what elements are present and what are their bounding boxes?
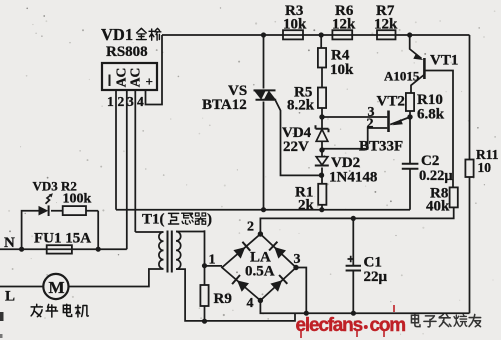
node 2 <box>247 220 263 237</box>
svg-text:0.5A: 0.5A <box>245 264 275 280</box>
svg-text:VT2: VT2 <box>377 94 405 110</box>
bridge rectifier VD1 body <box>102 63 157 90</box>
capacitor C2 <box>402 117 419 210</box>
svg-text:L: L <box>5 289 15 305</box>
wire UJT b2 (pin3) <box>322 105 387 120</box>
svg-text:C2: C2 <box>421 153 439 169</box>
wire DC+ rail node2 to R8 <box>260 207 453 233</box>
label FU1 15A <box>34 231 91 247</box>
label C1 22u <box>364 255 388 286</box>
svg-text:BT33F: BT33F <box>359 139 403 155</box>
svg-text:100k: 100k <box>63 192 92 207</box>
label VT1 <box>430 53 458 69</box>
motor M <box>43 274 68 299</box>
wire VD1 pin3 down to T1 primary top <box>134 90 136 232</box>
transformer T1 core <box>168 231 172 273</box>
wire VD1 pin1 to control ground rail <box>115 90 117 210</box>
label R5 8.2k <box>287 85 315 114</box>
node R5/VD4/pin3 <box>319 114 324 119</box>
svg-text:R9: R9 <box>214 291 232 307</box>
label R7 12k <box>374 3 398 33</box>
resistor R8 <box>450 187 458 207</box>
wire triac gate to VD2/R1 node <box>276 101 322 176</box>
wire secondary top down to node 1 <box>204 230 206 285</box>
wire VS branch from top rail <box>263 35 265 210</box>
label N <box>4 235 15 251</box>
wire control ground rail <box>116 209 410 211</box>
label R4 10k <box>330 48 354 79</box>
label VS BTA12 <box>202 83 247 113</box>
node top rail / VT1 emitter <box>407 32 412 37</box>
transistor VT1 A1015 <box>410 35 453 187</box>
watermark chinese gray <box>411 314 480 327</box>
svg-text:3: 3 <box>127 94 134 109</box>
wire bottom rail <box>260 301 469 314</box>
label 100k <box>63 192 92 207</box>
wire L line left <box>0 286 43 288</box>
resistor R2 <box>63 206 86 215</box>
bridge diode bottom-left <box>232 275 249 292</box>
resistor R9 <box>200 285 208 322</box>
VD1 part number RS808 <box>106 44 148 60</box>
svg-text:1N4148: 1N4148 <box>329 170 377 186</box>
svg-text:4: 4 <box>247 296 254 311</box>
svg-text:12k: 12k <box>332 17 356 33</box>
label R1 2k <box>295 185 315 214</box>
svg-text:10k: 10k <box>330 62 354 78</box>
wire VD3/R2 parallel branch <box>22 211 99 250</box>
node rail/R1 <box>319 207 324 212</box>
bridge rectifier LA body <box>222 234 296 301</box>
wire main column R4..R1 <box>320 35 323 210</box>
resistor R5 <box>318 88 326 109</box>
label R3 10k <box>283 3 307 33</box>
label R9 <box>214 291 232 307</box>
node top rail / VS branch <box>261 32 266 37</box>
svg-text:T1(: T1( <box>142 212 165 228</box>
VD1 pin numbers 1 2 3 4 <box>107 94 144 109</box>
svg-text:VT1: VT1 <box>430 53 458 69</box>
node rail/VS <box>261 207 266 212</box>
wire node1 to bridge left <box>205 265 223 267</box>
node C1 bottom <box>351 311 356 316</box>
bridge rectifier VD1 label <box>101 25 161 44</box>
svg-text:AC: AC <box>114 68 129 88</box>
transformer T1 secondary winding <box>176 232 205 270</box>
node node3 drop <box>304 311 309 316</box>
label VT2 <box>377 94 405 110</box>
svg-text:40k: 40k <box>426 199 450 215</box>
svg-text:2: 2 <box>247 220 254 235</box>
diode VD2 <box>315 157 329 166</box>
node N rail left <box>19 247 24 252</box>
label R8 40k <box>426 186 450 215</box>
node VD4/VD2/pin2 <box>319 147 324 152</box>
wire top supply rail <box>162 34 470 36</box>
resistor R7 <box>377 30 396 39</box>
label BT33F <box>359 139 403 155</box>
svg-text:8.2k: 8.2k <box>287 98 315 114</box>
label L <box>5 289 15 305</box>
label motor chinese <box>31 304 88 317</box>
label R10 6.8k <box>417 92 445 123</box>
svg-text:4: 4 <box>137 94 144 109</box>
surge arrow above VD3 <box>46 193 53 204</box>
transformer T1 label <box>142 212 212 228</box>
wire VD1 pin4 (+) up to top rail <box>146 35 163 105</box>
svg-text:22V: 22V <box>283 139 309 155</box>
svg-text:2k: 2k <box>298 198 315 214</box>
svg-text:M: M <box>49 278 65 297</box>
svg-text:6.8k: 6.8k <box>417 107 445 123</box>
label VD2 1N4148 <box>329 155 377 186</box>
wire T1 secondary bottom to lower rail <box>176 269 295 321</box>
svg-text:12k: 12k <box>374 17 398 33</box>
svg-text:A1015: A1015 <box>384 69 420 84</box>
label A1015 <box>384 69 420 84</box>
label LA 0.5A <box>245 250 275 280</box>
svg-text:+: + <box>146 74 153 89</box>
resistor R6 <box>332 30 352 39</box>
wire N rail <box>0 248 127 250</box>
node 3 <box>293 252 300 270</box>
node top rail / R4 branch <box>319 32 324 37</box>
node 1 <box>202 253 216 269</box>
svg-text:): ) <box>207 212 212 228</box>
svg-text:com: com <box>370 315 406 336</box>
wire node3 to bottom rail <box>296 268 306 314</box>
resistor R4 <box>318 48 326 68</box>
resistor R11 <box>465 35 473 313</box>
fuse FU1 <box>47 245 72 253</box>
node gate/VD2/R1 <box>319 173 324 178</box>
svg-text:RS808: RS808 <box>106 44 148 60</box>
transistor VT2 BT33F <box>389 111 411 133</box>
edge mark bottom left <box>0 312 4 338</box>
svg-text:2: 2 <box>367 117 374 132</box>
label VD4 22V <box>282 125 312 155</box>
wire motor to T1 primary <box>69 269 164 287</box>
node N rail right <box>96 247 101 252</box>
node 4 <box>247 296 264 311</box>
diode VD3 <box>39 205 49 216</box>
resistor R1 <box>318 184 326 205</box>
resistor R10 <box>406 93 414 117</box>
svg-text:1: 1 <box>107 94 114 109</box>
watermark elecfans.com <box>296 305 406 338</box>
label R11 10 <box>476 147 499 175</box>
wire VD1 pin2 down to N rail <box>126 90 128 249</box>
resistor R3 <box>283 30 303 39</box>
svg-text:22μ: 22μ <box>364 269 388 285</box>
svg-text:FU1 15A: FU1 15A <box>34 231 91 247</box>
bridge diode top-right <box>269 242 286 259</box>
svg-text:0.22μ: 0.22μ <box>419 168 453 184</box>
node R10/VT2 emitter/C2 <box>407 114 412 119</box>
bridge diode bottom-right <box>270 275 287 292</box>
svg-text:3: 3 <box>294 252 301 267</box>
transformer T1 primary winding <box>135 232 163 269</box>
svg-text:elecfans: elecfans <box>296 315 363 336</box>
zener diode VD4 <box>316 125 329 141</box>
bridge diode top-left <box>233 242 250 259</box>
svg-text:AC: AC <box>128 68 143 88</box>
svg-text:VD3: VD3 <box>33 179 59 194</box>
node R9 bottom <box>202 319 207 324</box>
svg-text:10: 10 <box>478 160 492 175</box>
label VD3 R2 <box>33 179 77 194</box>
wire UJT b1 (pin2) <box>322 117 387 149</box>
capacitor C1 <box>346 218 361 313</box>
svg-text:BTA12: BTA12 <box>202 97 247 113</box>
label C2 0.22u <box>419 153 453 184</box>
svg-text:10k: 10k <box>283 17 307 33</box>
svg-text:N: N <box>4 235 15 251</box>
node C1 top <box>351 216 356 221</box>
label R6 12k <box>332 3 356 33</box>
svg-text:2: 2 <box>118 94 125 109</box>
svg-text:VD1: VD1 <box>101 25 133 44</box>
triac VS <box>254 90 277 99</box>
